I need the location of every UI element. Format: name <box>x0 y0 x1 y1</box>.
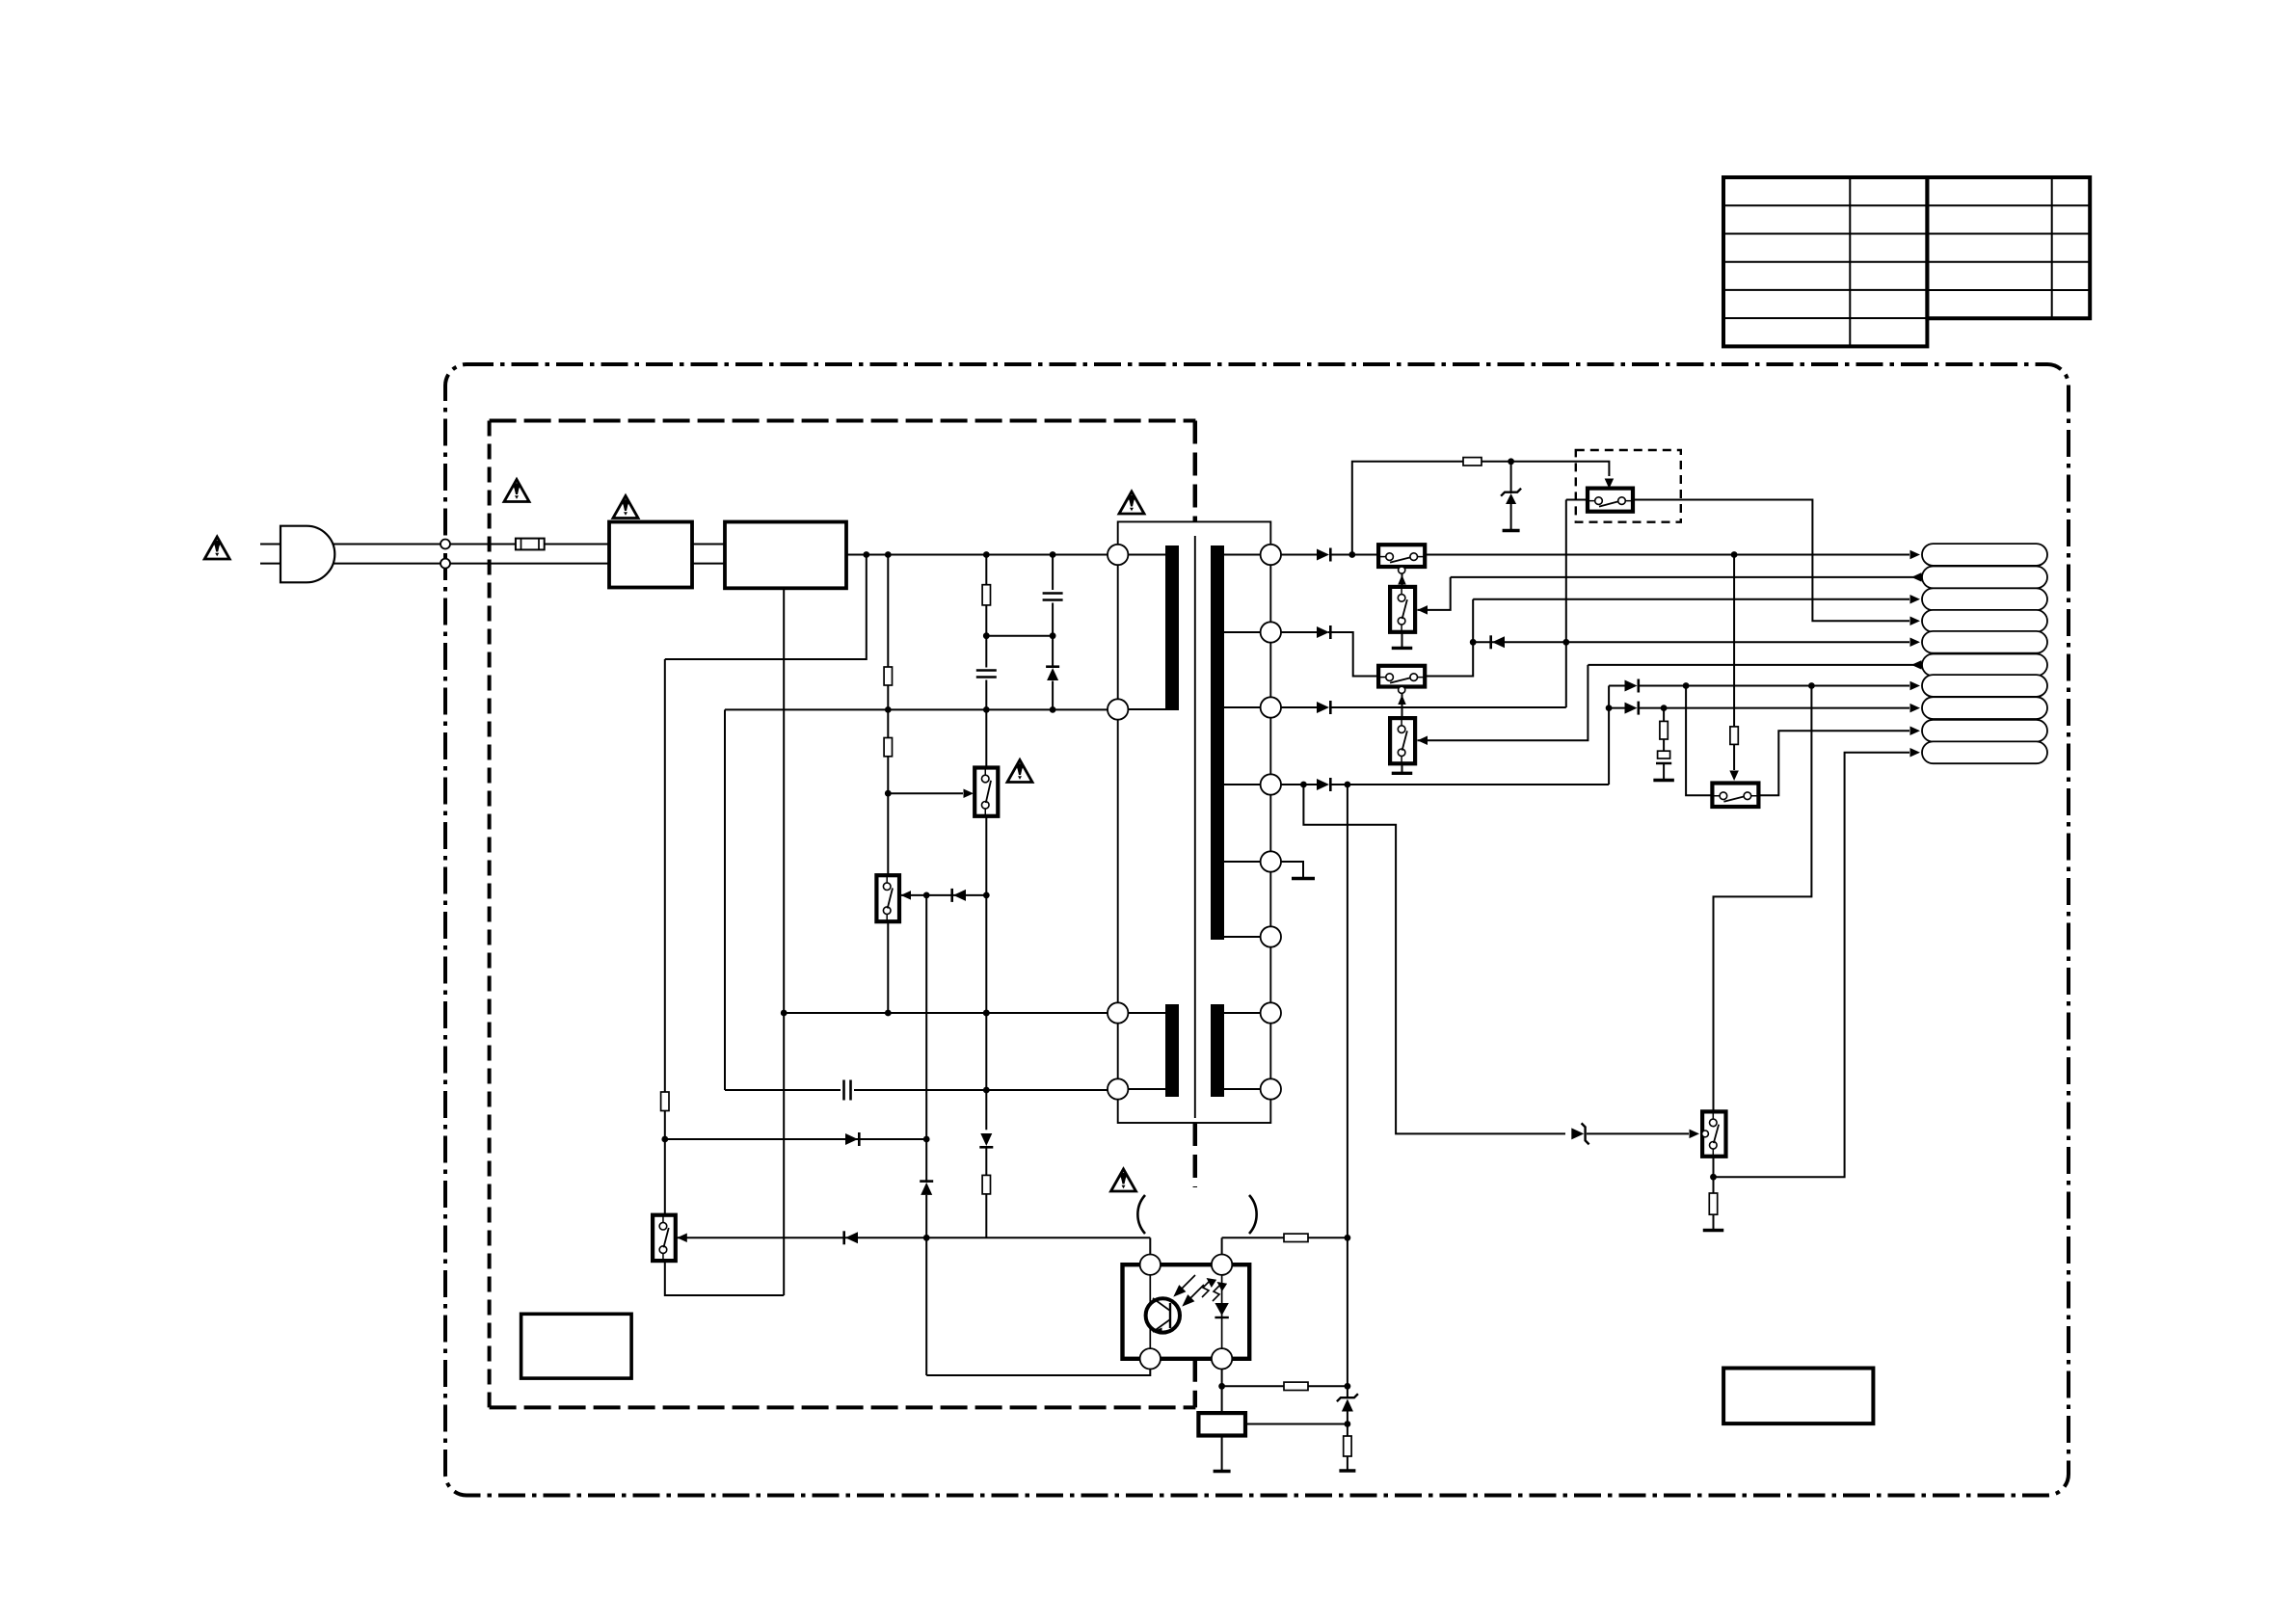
wire column C middle <box>985 605 987 668</box>
optocoupler PC1 <box>1123 1255 1250 1370</box>
node rail A <box>863 551 869 558</box>
switch SW-E (output relay) <box>1702 1111 1725 1156</box>
arrow into CN pin 8 <box>1910 704 1921 713</box>
isolation barrier dashed line (below transformer) <box>1193 1123 1198 1187</box>
wire SW-C out to CN9 <box>1758 731 1909 795</box>
node SW-D column / row5 <box>1562 639 1569 646</box>
standby control dashed box <box>1576 450 1681 522</box>
node SW-E out <box>1710 1174 1717 1181</box>
wire SW-B pin link <box>1402 687 1403 719</box>
node D5 out <box>1683 682 1690 689</box>
wire U2 ref to divider <box>1245 1423 1348 1425</box>
wire sec row 4 (pin to diode) <box>1281 784 1317 785</box>
warning triangle (transformer) <box>1119 492 1144 514</box>
wire CN5 signal <box>1473 641 1909 643</box>
warning triangle (AC inlet) <box>204 537 229 559</box>
node Vcc / aux2 row <box>983 1087 990 1094</box>
wire SW2 drive row <box>899 894 986 896</box>
node column D mid <box>1050 632 1056 639</box>
transformer pin 3 (pri aux) <box>1108 1002 1128 1023</box>
wire column B to aux rail <box>887 685 889 738</box>
wire Z2 to SW-E <box>1587 1132 1689 1134</box>
wire row4 snubber branch <box>1303 785 1565 1133</box>
wire sec row 3 to SW-D column <box>1331 706 1566 708</box>
node row4 / opto rail <box>1345 782 1351 788</box>
wire opto anode lead <box>1221 1237 1223 1254</box>
transformer pin 5 (sec) <box>1261 545 1281 565</box>
wire SW5 bottom return <box>665 1261 784 1295</box>
wire column D middle <box>1052 603 1054 669</box>
warning triangle (optocoupler) <box>1111 1169 1136 1191</box>
wire sec row 2 to SW-B <box>1328 632 1378 677</box>
wire CN6 signal <box>1588 664 1922 666</box>
wire D5 to connector <box>1639 685 1909 687</box>
transformer pin 11 (sec) <box>1261 1002 1281 1023</box>
wire C1 to ground <box>1663 763 1665 779</box>
wire sec row 3 (pin to diode) <box>1281 706 1317 708</box>
wire Z1 to ground <box>1510 504 1512 529</box>
wire row4 riser to diode pair <box>1608 686 1610 785</box>
node aux1/SW2 <box>885 1010 892 1017</box>
node zener column / LED row <box>923 1235 930 1241</box>
diode D14 (zener column, up) <box>921 1183 932 1195</box>
wire R3 to SW-C <box>1733 744 1735 770</box>
wire AC line (top) <box>334 544 609 545</box>
boundary feed-through node (top) <box>441 540 450 549</box>
resistor R14 (LED feed) <box>982 1175 990 1194</box>
resistor R11 (column B) <box>884 667 892 685</box>
label box (primary note) <box>521 1314 632 1378</box>
wire control-block bottom column <box>783 588 785 1295</box>
wire SW-A2 ground lead <box>1402 632 1403 647</box>
diode D3 (rectifier row3) <box>1317 702 1329 713</box>
ground (feedback divider) <box>1339 1469 1355 1472</box>
wire primary aux rail <box>725 708 1108 710</box>
diode D12 (drive row, right) <box>845 1133 858 1145</box>
zener diode Z2 (SW-E drive) <box>1571 1128 1584 1139</box>
wire SW-D right pin to CN4 <box>1633 500 1909 622</box>
resistor R10 (left bus) <box>661 1092 669 1111</box>
node rail C <box>983 551 990 558</box>
wire snubber column B upper <box>887 555 889 668</box>
node startup/zener <box>1508 458 1514 465</box>
relay coil SW-B2 <box>1390 718 1415 763</box>
wire opto collector lead <box>1149 1237 1151 1254</box>
wire left bus vertical (upper) <box>664 659 666 1092</box>
primary-side dashed enclosure top border <box>490 419 1196 423</box>
node Vcc / SW2 drive row <box>983 892 990 899</box>
node opto rail / cathode row <box>1345 1383 1351 1390</box>
wire R7 to ground <box>1347 1456 1348 1470</box>
connector CN pin 4 <box>1922 610 2047 632</box>
arrow out of CN pin 6 <box>1911 660 1922 670</box>
zener diode Z3 (feedback) <box>1342 1399 1353 1412</box>
wire SW-A pin link <box>1402 567 1403 587</box>
wire zener column upper <box>925 895 927 1183</box>
warning triangle (SW1) <box>1007 760 1032 783</box>
ground (Z1) <box>1503 529 1520 532</box>
arrow into SW-C <box>1729 771 1739 782</box>
connector CN pin 7 <box>1922 675 2047 697</box>
warning triangle (fuse area) <box>504 480 529 502</box>
node row1/SW-D drive <box>1731 551 1738 558</box>
wire opto emitter return <box>926 1370 1150 1376</box>
resistor R7 (divider) <box>1344 1436 1351 1456</box>
revision table left block <box>1723 177 1927 346</box>
ground (U2) <box>1214 1470 1231 1473</box>
rectifier / control block <box>725 522 846 589</box>
node diode pair mid <box>1606 705 1613 711</box>
transformer T1 <box>1118 521 1271 1123</box>
connector CN pin 8 <box>1922 697 2047 719</box>
arrow into CN pin 10 <box>1910 748 1921 758</box>
ground (transformer shield) <box>1292 877 1315 880</box>
wire to diode D6 <box>1609 707 1624 709</box>
node left bus / drive row <box>661 1136 668 1143</box>
wire CN6 to SW-B coil <box>1418 665 1589 740</box>
diode D6 (to CN8) <box>1625 703 1638 714</box>
wire opto collector row <box>1222 1237 1284 1238</box>
wire left bus vertical (lower) <box>664 1111 666 1215</box>
isolation barrier dashed line (below optocoupler) <box>1193 1359 1198 1408</box>
wire aux rail drop column <box>724 709 726 1090</box>
arrow into SW-A coil <box>1418 605 1428 615</box>
arrow into SW-D <box>1605 479 1615 490</box>
connector CN pin 3 <box>1922 588 2047 610</box>
transformer pin 12 (sec) <box>1261 1078 1281 1099</box>
wire filter to rectifier (bottom) <box>692 563 725 565</box>
wire zener Z1 lead <box>1510 462 1512 493</box>
connector CN pin 2 <box>1922 567 2047 589</box>
resistor R5 (collector) <box>1284 1234 1308 1241</box>
resistor R4 (SW-E pull-down) <box>1709 1193 1717 1214</box>
node CN7 sense <box>1808 682 1815 689</box>
primary-side dashed enclosure bottom border <box>490 1405 1196 1409</box>
switch SW-A (row1 relay) <box>1378 545 1425 567</box>
arrow into SW-E drive <box>1690 1130 1700 1139</box>
diode D4 (rectifier row4) <box>1317 779 1329 790</box>
isolation gap left parenthesis <box>1137 1195 1145 1234</box>
line filter block <box>609 522 692 588</box>
diode D11 (column D, up) <box>1047 668 1058 680</box>
diode D1 (rectifier row1) <box>1317 549 1329 561</box>
node row1/startup <box>1348 551 1355 558</box>
wire R6 to rail <box>1308 1385 1348 1387</box>
wire aux2 row right <box>854 1089 1108 1091</box>
wire R4 to ground <box>1713 1214 1715 1229</box>
wire sec rail 1 to connector <box>1425 554 1909 556</box>
wire column D lower <box>1052 681 1054 710</box>
arrow SW-B pin <box>1398 695 1406 705</box>
resistor R12 (column B) <box>884 738 892 757</box>
connector CN pin 5 <box>1922 631 2047 653</box>
node LED cathode row <box>1218 1383 1225 1390</box>
capacitor C10 (column C) <box>976 669 997 672</box>
wire CN3 signal <box>1473 599 1909 600</box>
wire LED feed to opto <box>985 1194 987 1237</box>
arrow into CN pin 7 <box>1910 681 1921 691</box>
diode D7 (row5, left) <box>1492 636 1505 648</box>
arrow into CN pin 9 <box>1910 726 1921 735</box>
wire primary DC rail <box>846 554 1108 556</box>
transformer pin 9 (sec) <box>1261 851 1281 871</box>
wire SW-D column to pin3 row <box>1565 500 1567 708</box>
relay switch SW1 (primary) <box>974 768 998 816</box>
wire sec row 4 east <box>1331 784 1610 785</box>
wire Vcc column below SW1 <box>985 816 987 1131</box>
wire sec ground pin <box>1281 862 1303 877</box>
node rail D <box>1050 551 1056 558</box>
wire SW-B2 ground lead <box>1402 763 1403 772</box>
node rail B <box>885 551 892 558</box>
primary-side dashed enclosure left border <box>488 421 492 1408</box>
wire SW1 drive arrow <box>888 792 963 794</box>
node column C mid <box>983 632 990 639</box>
transformer pin 7 (sec) <box>1261 697 1281 717</box>
AC plug P1 <box>260 526 334 583</box>
arrow into CN pin 5 <box>1910 638 1921 648</box>
node SW1 drive <box>885 790 892 797</box>
node aux rail dot <box>1050 706 1056 713</box>
wire SW-C drive column <box>1733 555 1735 727</box>
wire D6 filter leg <box>1663 708 1665 722</box>
transformer pin 6 (sec) <box>1261 622 1281 642</box>
outer chassis boundary (dash-dot box) <box>445 364 2069 1496</box>
wire sec rail 1 (diode to SW-A) <box>1331 554 1379 556</box>
resistor R6 (cathode) <box>1284 1382 1308 1390</box>
isolation gap right parenthesis <box>1249 1195 1257 1234</box>
node zener column top <box>923 892 930 899</box>
wire D6 to connector <box>1639 707 1909 709</box>
arrow out of CN pin 2 <box>1911 572 1922 582</box>
diode D13 (SW2 drive, left) <box>953 890 966 901</box>
wire startup feed (top) <box>1352 462 1463 555</box>
regulator / shunt reference U2 <box>1198 1413 1245 1435</box>
capacitor C11 (column D) <box>1043 592 1063 595</box>
wire R2 to C1 <box>1663 739 1665 751</box>
node column B aux rail <box>885 706 892 713</box>
connector CN pin 6 <box>1922 654 2047 677</box>
wire sec rail 1 (pin to diode) <box>1281 554 1317 556</box>
switch SW-C (row4 relay) <box>1712 784 1758 808</box>
zener diode Z1 <box>1506 493 1516 504</box>
wire CN2 to SW-A coil <box>1418 577 1451 610</box>
diode D5 (to CN7) <box>1625 680 1638 692</box>
fuse F1 <box>516 539 545 550</box>
node column C aux rail <box>983 706 990 713</box>
node D6 out <box>1661 705 1668 711</box>
wire U2 ground lead <box>1221 1436 1223 1471</box>
arrow into CN pin 4 <box>1910 617 1921 626</box>
relay coil SW-A2 <box>1390 587 1415 632</box>
wire SW-E bottom <box>1713 1157 1715 1193</box>
wire SW-B out <box>1425 599 1473 677</box>
wire column C to aux rail <box>985 680 987 768</box>
transformer pin 4 (pri aux) <box>1108 1078 1128 1099</box>
wire filter to rectifier (top) <box>692 544 725 545</box>
capacitor C1 (D6 filter) <box>1656 751 1671 763</box>
wire column B to SW2 <box>887 757 889 875</box>
relay switch SW2 (primary) <box>876 875 899 921</box>
transformer pin 8 (sec) <box>1261 774 1281 794</box>
diode D10 (Vcc feed, down) <box>980 1133 992 1146</box>
arrow into CN pin 3 <box>1910 595 1921 604</box>
wire opto cathode row <box>1222 1385 1284 1387</box>
wire opto LED cathode to U2 <box>1221 1370 1223 1414</box>
resistor R13 (column C) <box>982 585 990 605</box>
capacitor C12 (aux2 series) <box>842 1080 845 1101</box>
wire SW-D left pin <box>1566 499 1588 501</box>
transformer pin 2 (pri) <box>1108 699 1128 719</box>
diode D15 (SW5 drive, left) <box>845 1232 858 1243</box>
warning triangle (line filter) <box>613 496 638 519</box>
wire zener column lower <box>925 1195 927 1375</box>
arrow into CN pin 1 <box>1910 550 1921 560</box>
node Vcc / aux1 row <box>983 1010 990 1017</box>
wire CN2 signal <box>1451 576 1922 578</box>
ground (SW-E) <box>1703 1229 1724 1232</box>
node SW-B out / row5 <box>1470 639 1477 646</box>
node row4 snub branch <box>1300 782 1307 788</box>
ground (D6 filter) <box>1653 779 1674 782</box>
revision table right block <box>1927 177 2090 318</box>
wire rail branch to lower-left bus <box>665 555 867 660</box>
switch SW-D (standby) <box>1588 489 1633 512</box>
wire CN7 sense drop <box>1714 686 1812 1112</box>
wire mid link row <box>986 635 1053 637</box>
node feedback divider <box>1345 1421 1351 1427</box>
arrow SW-A pin <box>1398 575 1406 585</box>
wire R5 to rail <box>1308 1237 1348 1238</box>
label box (secondary note) <box>1723 1369 1873 1424</box>
arrow into SW-B coil <box>1418 736 1428 746</box>
wire Vcc to resistor <box>985 1146 987 1175</box>
resistor R3 (SW-C drive) <box>1730 727 1738 745</box>
wire D5 to SW-C <box>1686 686 1712 796</box>
transformer pin 1 (pri) <box>1108 545 1128 565</box>
wire opto rail (vertical) <box>1347 785 1348 1397</box>
diode D2 (rectifier row2) <box>1317 626 1329 638</box>
switch SW-B (row2 relay) <box>1378 666 1425 687</box>
wire SW-E out to CN10 <box>1714 753 1910 1177</box>
connector CN pin 9 <box>1922 720 2047 742</box>
resistor R2 (D6 filter) <box>1660 721 1668 739</box>
wire to diode D5 <box>1609 685 1624 687</box>
wire column C upper <box>985 555 987 585</box>
wire SW5 drive / LED row <box>676 1237 1151 1238</box>
wire column D upper <box>1052 555 1054 591</box>
connector CN pin 10 <box>1922 741 2047 763</box>
isolation barrier dashed line (upper segment) <box>1193 421 1198 537</box>
wire AC line (bottom) <box>334 563 609 565</box>
wire Z3 to node <box>1347 1412 1348 1437</box>
relay switch SW5 (primary) <box>653 1215 676 1261</box>
wire aux2 row left <box>725 1089 841 1091</box>
wire startup feed (to SW-D) <box>1482 462 1609 476</box>
node opto rail / collector row <box>1345 1235 1351 1241</box>
wire SW2 to aux winding 1 <box>887 921 889 1013</box>
wire aux1 row <box>784 1012 1108 1014</box>
ground (SW-A2) <box>1392 647 1413 650</box>
resistor R1 (startup) <box>1463 458 1482 466</box>
connector CN pin 1 <box>1922 544 2047 566</box>
boundary feed-through node (bottom) <box>441 559 450 569</box>
node drive/zener column <box>923 1136 930 1143</box>
ground (SW-B2) <box>1392 772 1413 775</box>
node aux1/Vcc <box>983 1010 990 1017</box>
wire drive row (feedback) <box>665 1138 926 1140</box>
wire sec row 2 (pin to diode) <box>1281 631 1317 633</box>
transformer pin 10 (sec) <box>1261 926 1281 946</box>
node aux1/control column <box>781 1010 788 1017</box>
